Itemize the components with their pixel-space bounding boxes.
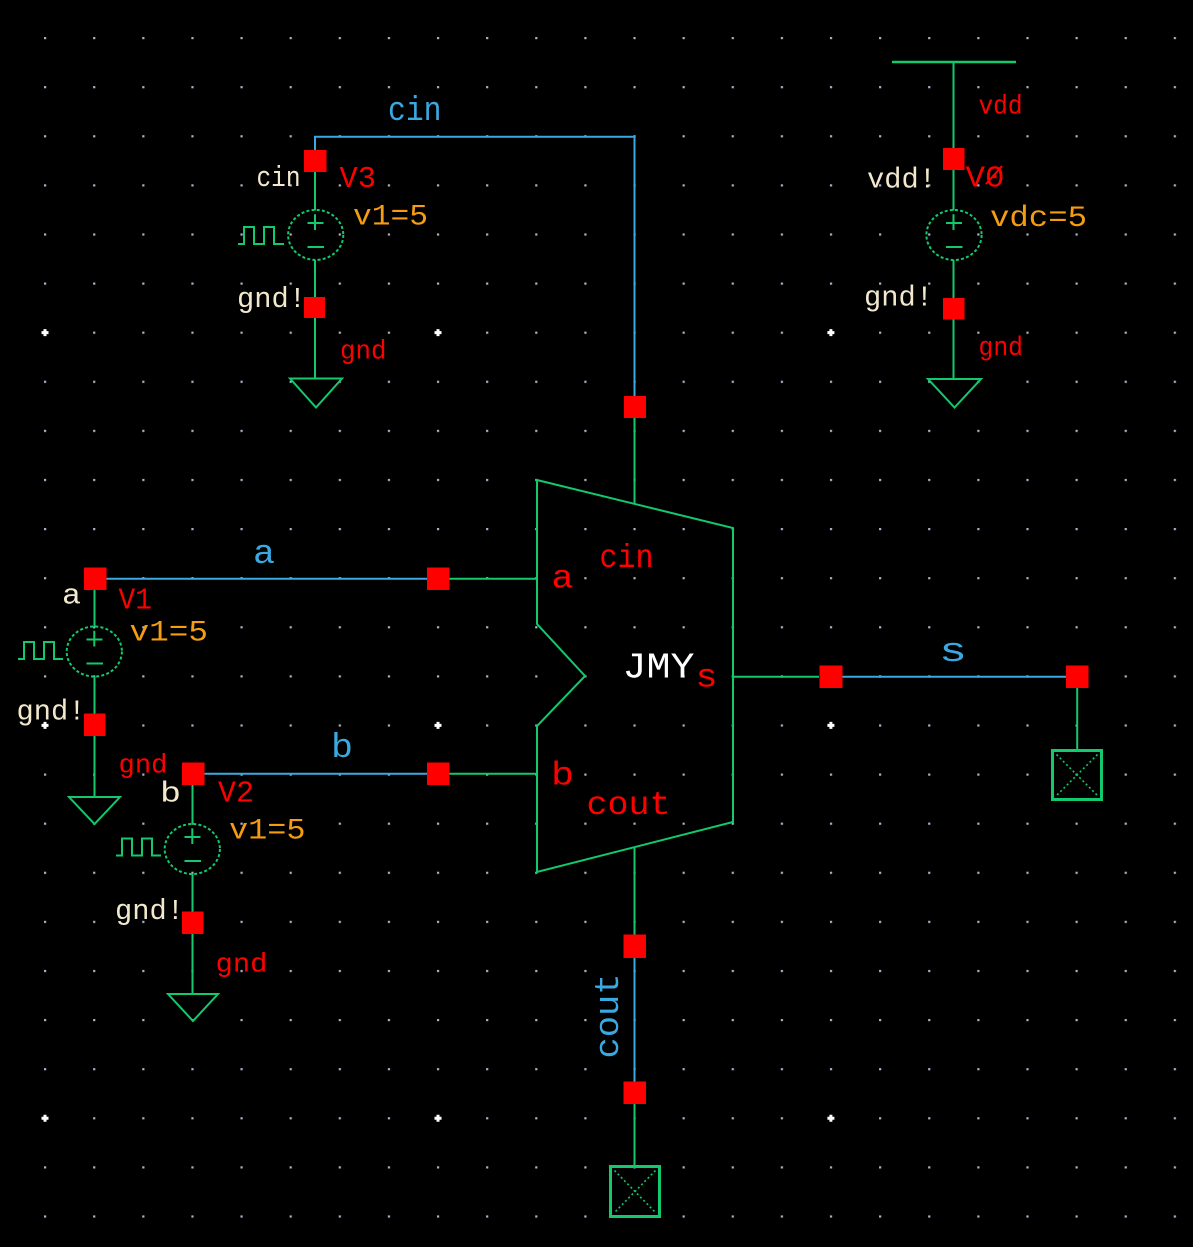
junction pin square on net s (left) [820,666,843,689]
wire V0 plus [953,170,955,211]
wire V2 minus [192,874,194,912]
svg-text:cout: cout [587,787,671,824]
vdd supply bar symbol [892,61,1016,64]
ground symbol (V2) [168,994,218,1021]
wire V0 to ground [953,320,955,380]
wire cin (net cin, blue) [315,137,635,396]
svg-text:V3: V3 [340,162,377,197]
svg-text:cin: cin [257,162,301,195]
noConn symbol on net cout [611,1167,660,1217]
pin square V1 plus (net a) [84,568,107,591]
wire V3 plus [314,172,316,211]
svg-text:V2: V2 [218,777,254,812]
vpulse source V3 [238,210,343,260]
svg-text:gnd!: gnd! [17,696,86,729]
junction pin square on net a [427,568,450,591]
pin square V0 minus (gnd!) [943,298,965,320]
wire s stub from adder [733,676,819,678]
pin square V0 plus (vdd!) [943,148,965,170]
svg-text:s: s [696,660,718,697]
svg-text:a: a [62,580,81,613]
junction pin square on net s (right) [1066,666,1089,689]
pin square V2 plus (net b) [182,763,205,786]
wire a stub to adder [450,578,538,580]
wire a (net a, blue) [106,578,427,580]
svg-text:gnd!: gnd! [115,895,184,928]
wire s to noConn [1076,688,1078,750]
wire s (net s, blue) [843,676,1067,678]
svg-text:gnd!: gnd! [237,283,306,316]
svg-text:gnd: gnd [216,951,268,981]
wire b stub to adder [450,773,538,775]
svg-text:b: b [551,758,574,795]
svg-text:JMY: JMY [623,648,695,689]
pin square V2 minus (gnd!) [182,912,204,935]
svg-text:vdc=5: vdc=5 [990,202,1087,236]
wire cout to noConn [634,1104,636,1166]
wire b (net b, blue) [204,773,427,775]
wire cout (net cout, blue) [634,958,636,1082]
pin square V3 plus (net cin) [304,150,327,172]
ground symbol (V1) [69,797,120,824]
svg-text:cin: cin [388,93,442,131]
wire V3 minus [314,260,316,297]
wire cin stub to adder [634,418,636,504]
svg-text:V1: V1 [119,584,153,619]
svg-text:v1=5: v1=5 [130,617,209,651]
wire cout stub from adder [634,847,636,935]
svg-text:gnd!: gnd! [864,282,933,315]
svg-text:a: a [253,536,275,574]
vpulse source V2 [116,824,220,874]
svg-text:V0: V0 [966,162,1005,197]
wire vdd bar to pin [953,62,955,148]
svg-text:s: s [939,634,967,672]
wire V1 plus [94,590,96,627]
svg-text:b: b [160,778,181,811]
svg-text:gnd: gnd [979,334,1024,364]
pin square V3 minus (gnd!) [304,297,325,318]
wire V0 minus [953,260,955,298]
svg-text:b: b [331,730,353,768]
vdc supply source V0 [926,210,981,260]
noConn symbol on net s [1053,751,1102,800]
junction pin square on net cin [624,396,646,418]
svg-text:v1=5: v1=5 [353,201,428,235]
svg-text:vdd!: vdd! [867,164,936,197]
full adder symbol JMY (instance) [537,480,733,872]
ground symbol (V0) [928,379,981,408]
ground symbol (V3) [290,379,342,408]
pin square V1 minus (gnd!) [84,714,106,737]
svg-text:cin: cin [600,540,654,577]
svg-text:gnd: gnd [340,338,387,368]
junction pin square on net cout (top) [624,935,647,959]
junction pin square on net cout (bottom) [624,1082,647,1105]
svg-text:vdd: vdd [979,93,1023,123]
svg-text:cout: cout [591,974,629,1059]
wire V1 to ground [94,736,96,797]
wire V1 minus [94,677,96,715]
vpulse source V1 [18,627,122,677]
wire V3 to ground [314,318,316,378]
wire V2 to ground [192,934,194,994]
wire V2 plus [192,785,194,825]
svg-text:a: a [552,561,574,598]
junction pin square on net b [427,763,450,786]
svg-text:v1=5: v1=5 [229,815,306,849]
